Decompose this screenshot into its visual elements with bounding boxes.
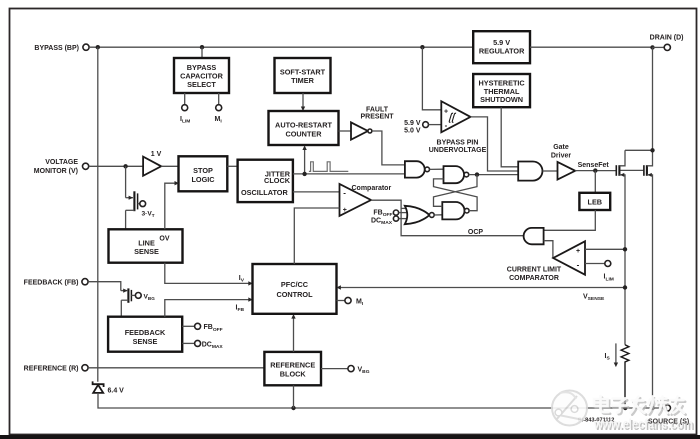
svg-text:-: - — [445, 121, 448, 130]
box SOFT-START TIMER — [275, 58, 331, 93]
svg-text:Comparator: Comparator — [352, 185, 392, 192]
watermark globe logo — [552, 391, 587, 426]
wire comparator output / OCP net — [371, 200, 524, 236]
comparator bypass pin undervoltage U-V — [422, 47, 441, 110]
transistor V_BG — [121, 290, 127, 292]
wire feedback sense to I_FB — [165, 300, 249, 317]
wire R to reference block — [88, 367, 264, 369]
node rail-sense — [623, 406, 627, 410]
svg-text:REFERENCE: REFERENCE — [270, 360, 315, 369]
svg-text:REFERENCE (R): REFERENCE (R) — [24, 365, 79, 372]
wire clock output — [293, 173, 405, 175]
svg-text:+: + — [576, 248, 580, 255]
wire FB — [88, 282, 121, 291]
wire OV to stop logic — [165, 183, 175, 229]
svg-text:FEEDBACK: FEEDBACK — [125, 328, 166, 337]
svg-text:5.0 V: 5.0 V — [404, 127, 421, 134]
svg-text:+: + — [444, 109, 448, 116]
svg-text:UNDERVOLTAGE: UNDERVOLTAGE — [429, 147, 487, 154]
inverter fault present — [339, 130, 352, 132]
svg-text:MONITOR (V): MONITOR (V) — [34, 168, 78, 175]
svg-text:5.9 V: 5.9 V — [493, 38, 510, 47]
wire reference block to PFC/CC (arrow up) — [293, 318, 295, 352]
svg-text:FAULT: FAULT — [366, 106, 389, 113]
wire to LEB — [594, 171, 596, 193]
svg-text:FBOFF: FBOFF — [204, 324, 223, 333]
wire buffer to stop logic — [161, 165, 178, 167]
node latch Q — [475, 172, 479, 176]
svg-text:VSENSE: VSENSE — [583, 294, 605, 303]
svg-text:VBG: VBG — [144, 293, 156, 301]
waveform clock pulses — [309, 162, 348, 172]
svg-text:AUTO-RESTART: AUTO-RESTART — [275, 121, 332, 130]
svg-text:-: - — [343, 189, 346, 198]
svg-text:SenseFet: SenseFet — [578, 162, 610, 169]
NOR gate — [405, 206, 430, 224]
mosfet Q2 main — [643, 165, 645, 176]
node fet drain — [650, 148, 654, 152]
wire V monitor — [89, 165, 143, 167]
svg-text:IFB: IFB — [236, 304, 245, 313]
svg-text:5.9 V: 5.9 V — [404, 120, 421, 127]
wire line sense to I_V — [165, 263, 249, 284]
svg-text:BLOCK: BLOCK — [280, 370, 307, 379]
terminal SOURCE (S) — [664, 405, 670, 411]
wire drain bus of fets — [625, 149, 653, 151]
box HYSTERETIC THERMAL SHUTDOWN — [473, 74, 530, 107]
svg-text:MI: MI — [356, 299, 364, 308]
wire V_SENSE — [341, 287, 626, 289]
NAND gate N1 — [405, 161, 425, 177]
mosfet Q1 SenseFet — [615, 165, 617, 176]
wire regulator to drain — [530, 46, 653, 48]
svg-text:SENSE: SENSE — [133, 337, 158, 346]
NAND gate latch top — [444, 166, 465, 183]
wire N1 to latch — [430, 168, 444, 170]
box LEB — [579, 193, 610, 210]
svg-text:6.4 V: 6.4 V — [108, 387, 125, 394]
AND gate gate-driver — [518, 162, 542, 181]
bottom page-edge bar — [0, 435, 700, 439]
wire shutdown to AND gate — [501, 107, 518, 167]
pin I_LIM of cap select — [184, 93, 186, 105]
svg-text:OSCILLATOR: OSCILLATOR — [241, 188, 288, 197]
resistor sense — [621, 345, 629, 408]
svg-text:LOGIC: LOGIC — [191, 175, 215, 184]
svg-text:MI: MI — [215, 116, 223, 125]
svg-text:DCMAX: DCMAX — [202, 341, 224, 350]
wire reference block to rail — [293, 385, 295, 408]
wire CL comparator + input — [585, 248, 625, 250]
wire zener to source rail — [98, 393, 664, 408]
NAND gate latch bottom — [442, 202, 464, 219]
svg-text:-: - — [577, 261, 580, 270]
wire driver to fets — [575, 170, 616, 172]
node BP-left — [96, 45, 100, 49]
svg-text:1 V: 1 V — [151, 151, 162, 158]
svg-text:CONTROL: CONTROL — [276, 290, 313, 299]
box STOP LOGIC — [179, 156, 228, 191]
svg-text:CLOCK: CLOCK — [264, 176, 291, 185]
pin I_LIM of CL comparator — [585, 263, 605, 265]
box JITTER CLOCK OSCILLATOR — [238, 160, 293, 202]
svg-text:SOURCE (S): SOURCE (S) — [648, 418, 689, 425]
box LINE SENSE — [109, 229, 183, 262]
node clock — [302, 172, 306, 176]
svg-text:Gate: Gate — [553, 144, 569, 151]
svg-text:BYPASS PIN: BYPASS PIN — [437, 139, 479, 146]
wire BP vertical down left side — [97, 47, 99, 382]
svg-text:VOLTAGE: VOLTAGE — [45, 159, 78, 166]
svg-text:REGULATOR: REGULATOR — [479, 47, 525, 56]
comparator current limit — [553, 241, 585, 274]
node V branch — [123, 164, 127, 168]
wire comparator + input from PFC/CC — [294, 208, 339, 264]
svg-text:VBG: VBG — [358, 367, 370, 376]
svg-text:DRAIN (D): DRAIN (D) — [650, 35, 684, 42]
svg-text:3·VT: 3·VT — [142, 211, 155, 219]
svg-text:STOP: STOP — [193, 166, 213, 175]
pin DC_MAX of feedback sense — [182, 342, 194, 344]
box PFC/CC CONTROL — [253, 264, 337, 314]
svg-text:CURRENT LIMIT: CURRENT LIMIT — [507, 267, 562, 274]
watermark chinese text (drawn strokes) — [594, 396, 686, 415]
svg-text:OCP: OCP — [468, 229, 484, 236]
transistor 3-VT — [125, 166, 127, 197]
svg-text:DCMAX: DCMAX — [371, 217, 393, 226]
svg-text:BYPASS (BP): BYPASS (BP) — [34, 45, 79, 52]
wire latch cross-coupling A — [434, 175, 478, 207]
svg-text:COUNTER: COUNTER — [285, 130, 322, 139]
wire UV comparator to AND gate — [471, 117, 519, 171]
svg-text:+: + — [343, 207, 347, 214]
svg-text:COMPARATOR: COMPARATOR — [509, 275, 559, 282]
pin M_I of cap select — [218, 93, 220, 105]
pin V_BG of reference block — [321, 368, 348, 370]
box FEEDBACK SENSE — [108, 317, 182, 352]
svg-text:TIMER: TIMER — [291, 76, 314, 85]
wire drain vertical — [652, 47, 654, 150]
wire clock to counter (arrow up) — [304, 150, 306, 174]
svg-text:FEEDBACK (FB): FEEDBACK (FB) — [24, 279, 79, 286]
svg-text:SELECT: SELECT — [187, 80, 216, 89]
box AUTO-RESTART COUNTER — [269, 111, 339, 145]
pin FB_OFF of feedback sense — [182, 325, 194, 327]
AND gate current limit (points left) — [524, 228, 544, 244]
svg-text:ILIM: ILIM — [180, 116, 190, 125]
node rail-refblock — [291, 406, 295, 410]
node rail-fet — [650, 406, 654, 410]
wire NOR to lower NAND — [434, 214, 442, 216]
wire latch cross-coupling B — [434, 179, 478, 211]
svg-text:IS: IS — [605, 353, 611, 362]
svg-text:PRESENT: PRESENT — [360, 113, 394, 120]
zener diode 6.4V — [93, 381, 104, 393]
wire LEB to current-limit AND — [544, 210, 596, 230]
svg-text:ILIM: ILIM — [604, 274, 614, 283]
node BP-capselect — [200, 45, 204, 49]
svg-text:SENSE: SENSE — [134, 247, 159, 256]
wire oscillator sawtooth output — [293, 191, 340, 193]
wire stop logic to oscillator — [227, 165, 237, 167]
svg-text:IV: IV — [239, 275, 245, 284]
node BP-uvlo — [420, 45, 424, 49]
wire CL and bottom input to comparator — [544, 241, 553, 259]
box 5.9V REGULATOR — [473, 31, 530, 63]
box REFERENCE BLOCK — [264, 352, 321, 385]
svg-text:Driver: Driver — [551, 152, 572, 159]
svg-text:PFC/CC: PFC/CC — [281, 280, 309, 289]
wire inverter to NAND1 — [372, 131, 405, 165]
node drain — [650, 45, 654, 49]
box BYPASS CAPACITOR SELECT — [201, 47, 203, 58]
svg-text:SHUTDOWN: SHUTDOWN — [480, 95, 523, 104]
svg-text:OV: OV — [159, 236, 169, 243]
wire BP rail — [89, 46, 473, 48]
pin M_I of PFC/CC — [337, 300, 345, 302]
wire soft-start to counter — [302, 93, 304, 107]
svg-text:LEB: LEB — [587, 198, 602, 207]
